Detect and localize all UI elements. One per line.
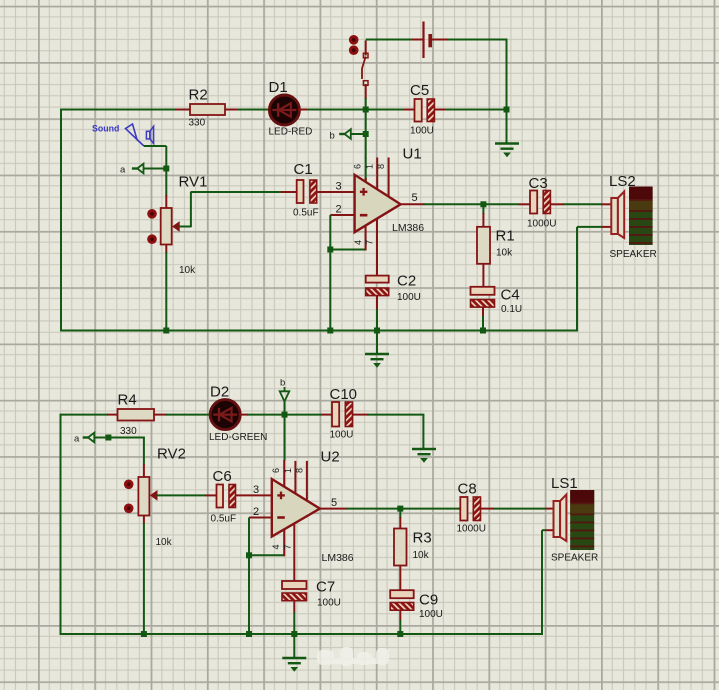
svg-text:C2: C2 bbox=[397, 273, 416, 290]
svg-text:SPEAKER: SPEAKER bbox=[610, 249, 657, 260]
svg-text:4: 4 bbox=[271, 544, 281, 549]
svg-text:330: 330 bbox=[120, 426, 137, 437]
svg-text:100U: 100U bbox=[317, 598, 341, 609]
svg-text:6: 6 bbox=[353, 164, 363, 169]
svg-text:U1: U1 bbox=[403, 146, 422, 163]
svg-text:4: 4 bbox=[353, 240, 363, 245]
svg-text:LS1: LS1 bbox=[551, 475, 578, 492]
svg-text:D1: D1 bbox=[269, 79, 288, 96]
svg-text:0.5uF: 0.5uF bbox=[293, 208, 319, 219]
svg-text:LS2: LS2 bbox=[609, 173, 636, 190]
svg-text:LED-RED: LED-RED bbox=[269, 127, 313, 138]
svg-text:R1: R1 bbox=[496, 228, 515, 245]
svg-text:10k: 10k bbox=[413, 550, 430, 561]
svg-text:10k: 10k bbox=[496, 248, 513, 259]
svg-text:U2: U2 bbox=[321, 449, 340, 466]
svg-text:10k: 10k bbox=[179, 265, 196, 276]
svg-text:SPEAKER: SPEAKER bbox=[551, 553, 598, 564]
svg-text:D2: D2 bbox=[210, 384, 229, 401]
svg-text:LM386: LM386 bbox=[322, 552, 354, 564]
svg-text:1000U: 1000U bbox=[457, 524, 486, 535]
svg-text:8: 8 bbox=[376, 164, 386, 169]
svg-text:C1: C1 bbox=[294, 161, 313, 178]
svg-text:b: b bbox=[280, 378, 285, 389]
svg-text:330: 330 bbox=[189, 118, 206, 129]
svg-text:100U: 100U bbox=[419, 609, 443, 620]
svg-text:C5: C5 bbox=[410, 82, 429, 99]
svg-text:5: 5 bbox=[331, 497, 337, 509]
svg-text:1000U: 1000U bbox=[527, 219, 556, 230]
svg-text:0.5uF: 0.5uF bbox=[211, 514, 237, 525]
svg-text:100U: 100U bbox=[410, 126, 434, 137]
svg-text:7: 7 bbox=[364, 240, 374, 245]
svg-text:C3: C3 bbox=[529, 175, 548, 192]
svg-text:6: 6 bbox=[271, 468, 281, 473]
svg-text:C6: C6 bbox=[213, 468, 232, 485]
svg-text:RV1: RV1 bbox=[179, 174, 208, 191]
svg-text:Sound: Sound bbox=[92, 124, 119, 134]
svg-text:C9: C9 bbox=[419, 592, 438, 609]
svg-text:5: 5 bbox=[412, 192, 418, 204]
svg-text:C10: C10 bbox=[330, 386, 358, 403]
svg-text:2: 2 bbox=[253, 506, 259, 518]
svg-text:R3: R3 bbox=[413, 530, 432, 547]
svg-text:1: 1 bbox=[283, 468, 293, 473]
svg-text:RV2: RV2 bbox=[157, 446, 186, 463]
svg-text:10k: 10k bbox=[156, 537, 173, 548]
svg-text:0.1U: 0.1U bbox=[501, 304, 522, 315]
svg-text:R4: R4 bbox=[118, 392, 137, 409]
svg-text:a: a bbox=[74, 434, 80, 445]
svg-text:LM386: LM386 bbox=[392, 222, 424, 234]
svg-text:LED-GREEN: LED-GREEN bbox=[209, 432, 267, 443]
svg-text:100U: 100U bbox=[330, 430, 354, 441]
svg-text:100U: 100U bbox=[397, 292, 421, 303]
svg-text:8: 8 bbox=[294, 468, 304, 473]
svg-text:1: 1 bbox=[365, 164, 375, 169]
svg-text:2: 2 bbox=[336, 204, 342, 216]
svg-text:C8: C8 bbox=[458, 481, 477, 498]
svg-text:C7: C7 bbox=[316, 579, 335, 596]
svg-text:b: b bbox=[330, 131, 335, 142]
svg-text:3: 3 bbox=[336, 181, 342, 193]
svg-text:R2: R2 bbox=[189, 87, 208, 104]
svg-text:a: a bbox=[120, 165, 126, 176]
svg-text:7: 7 bbox=[283, 544, 293, 549]
svg-text:C4: C4 bbox=[501, 287, 520, 304]
svg-text:3: 3 bbox=[253, 484, 259, 496]
